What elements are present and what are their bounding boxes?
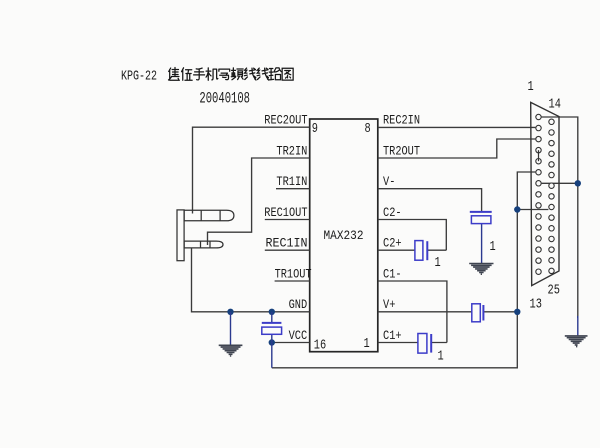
title chinese 建伍手机写频线线路图 — [169, 68, 294, 81]
junction node DB25 gnd rail — [575, 180, 581, 186]
wire RTS-CTS link pins 4-5 — [538, 150, 540, 161]
svg-text:14: 14 — [549, 97, 561, 113]
wire DB25 pin1 to right rail — [542, 117, 578, 318]
svg-text:13: 13 — [530, 297, 542, 313]
connector P1 pins right column — [549, 119, 554, 273]
connector P1 DB25 body — [531, 102, 559, 285]
wire TR1IN stub — [276, 188, 310, 190]
capacitor C2 (C2+/C2-) — [415, 241, 427, 261]
svg-text:C2-: C2- — [383, 205, 402, 220]
connector J1 stereo plug sleeve bar — [177, 210, 184, 261]
svg-text:1: 1 — [528, 79, 534, 95]
wire REC2IN to DB25 pin2 — [378, 126, 536, 128]
junction node GND-left — [227, 309, 233, 315]
junction node VCC-bottom — [269, 339, 275, 345]
svg-text:1: 1 — [438, 349, 444, 365]
svg-text:REC1IN: REC1IN — [266, 236, 308, 251]
svg-text:C2+: C2+ — [383, 236, 402, 251]
wire VCC stub — [272, 342, 310, 344]
wire TR1OUT stub — [275, 280, 310, 282]
svg-text:C1-: C1- — [383, 266, 402, 281]
svg-text:16: 16 — [314, 338, 326, 354]
wire TR2OUT to DB25 pin3 — [378, 139, 536, 158]
svg-text:REC2IN: REC2IN — [383, 113, 420, 128]
wire drop to left ground — [230, 312, 232, 345]
svg-text:9: 9 — [312, 121, 318, 137]
wire C2+ to capacitor — [378, 249, 447, 251]
wire C1- loop — [378, 281, 447, 343]
svg-text:REC1OUT: REC1OUT — [264, 205, 307, 220]
svg-text:GND: GND — [289, 297, 308, 312]
svg-text:TR1IN: TR1IN — [276, 174, 307, 189]
svg-text:C1+: C1+ — [383, 328, 402, 343]
wire V+ to capacitor — [378, 311, 518, 313]
wire REC1OUT stub — [265, 219, 310, 221]
wire TR2IN pin10 left — [208, 158, 310, 245]
capacitor C5 (VCC) — [262, 323, 282, 334]
connector J1 lower plug barrel — [184, 241, 223, 248]
svg-text:20040108: 20040108 — [199, 90, 250, 108]
connector J1 upper plug barrel — [184, 210, 234, 221]
capacitor C3 (V+) — [472, 304, 484, 322]
svg-text:MAX232: MAX232 — [324, 228, 364, 243]
junction node VCC-top — [269, 309, 275, 315]
wire VCC cap vertical — [271, 312, 273, 368]
svg-text:1: 1 — [364, 336, 370, 352]
svg-text:8: 8 — [365, 121, 371, 137]
junction node V+ rail — [514, 309, 520, 315]
svg-text:25: 25 — [548, 283, 560, 299]
capacitor C1 (C1+) — [418, 334, 431, 354]
op-amp U1 MAX232 chip body — [310, 119, 378, 352]
wire rail to bottom-right ground — [577, 316, 579, 335]
ground (middle V-) — [469, 264, 493, 275]
wire C2- loop — [378, 220, 447, 251]
svg-text:V-: V- — [383, 174, 395, 189]
connector P1 pins left column — [536, 114, 541, 274]
svg-text:TR2OUT: TR2OUT — [383, 143, 420, 158]
svg-text:REC2OUT: REC2OUT — [264, 113, 307, 128]
wire REC2OUT pin9 left — [193, 127, 310, 213]
capacitor C4 (V-) — [470, 212, 492, 224]
wire bottom return loop — [272, 172, 536, 368]
wire GND bottom — [192, 248, 310, 312]
svg-text:TR1OUT: TR1OUT — [275, 266, 312, 281]
wire V- cap to middle ground — [481, 224, 483, 263]
svg-text:TR2IN: TR2IN — [276, 143, 307, 158]
svg-text:VCC: VCC — [289, 328, 308, 343]
wire DB25 pin7 gnd to rail — [542, 182, 578, 184]
wire DTR to DB25 right col — [517, 209, 548, 211]
wire REC1IN stub — [265, 249, 310, 251]
junction node DTR rail — [514, 206, 520, 212]
svg-text:V+: V+ — [383, 297, 396, 312]
ground (bottom right) — [565, 336, 588, 347]
ground (left) — [219, 345, 243, 356]
wire C1+ to capacitor — [378, 342, 447, 344]
svg-text:KPG-22: KPG-22 — [121, 69, 157, 85]
wire V- to capacitor — [378, 189, 482, 211]
svg-text:1: 1 — [490, 239, 496, 255]
svg-text:1: 1 — [435, 255, 441, 271]
